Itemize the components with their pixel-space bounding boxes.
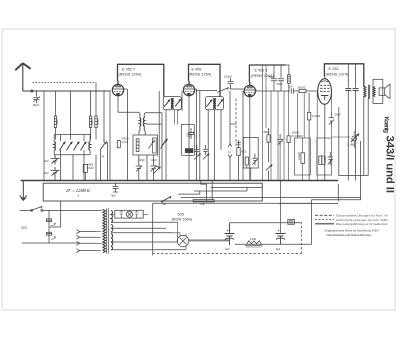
svg-text:40pF: 40pF	[139, 158, 145, 162]
loudspeaker	[373, 79, 383, 103]
band indicator dashed	[229, 91, 231, 181]
secondary tap wires	[111, 222, 186, 249]
mid column: capacitor pair	[186, 132, 196, 140]
output transformer	[364, 86, 366, 97]
resistor small top	[288, 219, 295, 224]
trimmer cap 4nF b	[51, 167, 60, 177]
fuse 2	[46, 232, 51, 235]
svg-text:8μF: 8μF	[276, 247, 281, 251]
node: antenna tap circle	[31, 90, 33, 92]
capacitor with switch b	[203, 145, 207, 155]
box demodulator	[182, 125, 195, 156]
wire corner right	[339, 99, 368, 176]
svg-text:gez.: gez.	[163, 203, 168, 206]
wire left verticals	[43, 91, 45, 181]
coil SW2	[89, 142, 90, 151]
trimmer osc a	[136, 162, 142, 172]
svg-text:M: M	[102, 155, 104, 159]
capacitor 100pF	[228, 78, 234, 89]
switch M	[101, 142, 107, 150]
svg-text:150Ω: 150Ω	[323, 157, 327, 163]
svg-text:U: U	[228, 150, 231, 154]
rectifier tube 505	[177, 235, 189, 247]
trimmer left	[153, 167, 160, 174]
dial lamp box	[115, 210, 143, 218]
svg-text:Rote Leitungsführung nur für b: Rote Leitungsführung nur für beide Ausf.	[336, 222, 388, 226]
resistor 50000	[299, 90, 306, 93]
wire osc verticals	[139, 155, 154, 181]
tube V3 E452T	[244, 85, 255, 96]
capacitor tone 50pF	[329, 112, 335, 126]
tube V1 E452T	[112, 84, 123, 95]
mains wire top	[20, 210, 101, 212]
coil L1	[54, 116, 56, 128]
wire anode loop V3	[249, 65, 285, 85]
mains wire bottom	[22, 242, 80, 244]
capacitor with switch a	[195, 145, 199, 155]
capacitor 1nF	[291, 88, 299, 93]
svg-text:+: +	[77, 193, 80, 198]
svg-text:2MΩ: 2MΩ	[264, 130, 270, 134]
wire fuse to lamp	[49, 201, 61, 227]
switch gez on harness	[162, 197, 171, 202]
tube V4 E433 output	[318, 79, 332, 105]
resistor 20000 dark	[185, 149, 193, 153]
resistor 5000 mid	[237, 148, 240, 156]
svg-text:Gestrichelte Leitungen für Aus: Gestrichelte Leitungen für Ausf. 343/II	[336, 218, 388, 222]
ground	[20, 181, 27, 201]
capacitor a	[345, 89, 351, 91]
svg-text:E 452 T: E 452 T	[122, 67, 136, 71]
capacitor mid	[277, 134, 283, 146]
svg-text:50pF: 50pF	[277, 82, 284, 86]
smoothing cap 1	[225, 223, 235, 245]
trimmer osc b	[150, 162, 156, 172]
wire b+ runs	[235, 200, 311, 244]
svg-text:0,1MΩ: 0,1MΩ	[347, 143, 355, 147]
capacitor 50pF b	[278, 65, 284, 91]
field coil resistor	[247, 241, 261, 244]
wire anode loop V2	[189, 64, 221, 96]
wire fuse column	[48, 211, 50, 244]
harness wires	[194, 187, 262, 191]
long verticals right	[263, 65, 267, 181]
svg-text:Fahnenbezeichnung für beide Au: Fahnenbezeichnung für beide Ausführungen	[327, 233, 373, 237]
coil L2	[89, 116, 91, 128]
svg-text:0,3MΩ: 0,3MΩ	[297, 152, 301, 160]
wire anode loop V1	[118, 64, 164, 96]
oscillator box	[133, 135, 158, 155]
resistor grid leak V4	[307, 112, 310, 120]
resistor 40000	[117, 141, 120, 148]
svg-text:80pF: 80pF	[33, 103, 40, 107]
wire verticals below bank	[55, 135, 108, 181]
box filter D	[243, 137, 258, 168]
svg-text:4nF: 4nF	[44, 171, 49, 175]
chassis box II	[153, 203, 312, 255]
resistor 2M	[267, 135, 270, 142]
svg-text:4μF: 4μF	[225, 247, 230, 251]
svg-text:5000: 5000	[241, 151, 247, 154]
svg-text:100pF: 100pF	[224, 75, 232, 79]
wire anode loop V4	[324, 64, 363, 87]
IF transformer 2	[205, 97, 223, 110]
box cathode 2	[317, 138, 332, 175]
tube V2 E455	[183, 84, 194, 95]
wire antenna to bus	[23, 90, 111, 92]
antenna	[15, 63, 30, 91]
svg-text:40pF: 40pF	[151, 158, 157, 162]
svg-text:50pF: 50pF	[269, 75, 276, 79]
svg-text:0,1MΩ: 0,1MΩ	[312, 114, 320, 118]
svg-text:250: 250	[201, 202, 206, 206]
trimmer cap 4nF a	[51, 155, 60, 165]
capacitor trimmer antenna	[34, 91, 40, 103]
svg-text:Koenig: Koenig	[383, 117, 390, 134]
secondary windings	[111, 211, 112, 223]
svg-text:Dickumrandete Leitungen für Au: Dickumrandete Leitungen für Ausf. I+II	[336, 214, 388, 218]
capacitor on 238.8	[237, 143, 241, 145]
svg-text:(0,04): (0,04)	[122, 140, 129, 144]
ZF box	[43, 183, 262, 201]
coil choke	[286, 65, 289, 75]
coil L3	[95, 116, 97, 128]
svg-text:7000: 7000	[96, 118, 100, 125]
svg-text:OHM: OHM	[88, 166, 94, 170]
svg-text:4nF: 4nF	[44, 159, 49, 163]
svg-text:1nF: 1nF	[288, 85, 293, 89]
legend line 2	[315, 219, 334, 221]
resistor tall left	[152, 138, 156, 153]
oscillator coupling transformer	[139, 112, 140, 117]
svg-text:E 455: E 455	[192, 67, 202, 71]
svg-text:(RGN 1064): (RGN 1064)	[172, 218, 193, 222]
wire hv	[230, 222, 302, 224]
svg-text:E 452 T: E 452 T	[255, 69, 269, 73]
svg-text:300: 300	[90, 119, 94, 124]
coil SW1	[54, 142, 55, 151]
tone potentiometer	[351, 134, 359, 142]
svg-text:ZF = 128kHz: ZF = 128kHz	[65, 188, 91, 193]
chassis bus	[21, 180, 338, 182]
svg-text:(RENS 1264): (RENS 1264)	[119, 73, 142, 77]
box cathode 1	[295, 138, 311, 175]
band switch bank left	[54, 134, 90, 136]
svg-text:220: 220	[21, 226, 27, 230]
wire V2 to V3 with switch	[196, 89, 243, 91]
smoothing cap 2	[276, 234, 286, 245]
fuse 1	[46, 219, 51, 222]
switch contacts S1..S4	[60, 142, 66, 150]
svg-text:4μF: 4μF	[111, 194, 116, 198]
wire right column power	[311, 141, 360, 200]
svg-text:300: 300	[55, 119, 59, 124]
wire V4 cathode down	[324, 104, 326, 180]
capacitor 50pF a	[271, 65, 277, 91]
legend line 3	[315, 223, 334, 225]
svg-text:(RENS 1374): (RENS 1374)	[326, 72, 349, 76]
svg-text:505: 505	[178, 212, 184, 216]
primary tap arrows	[76, 230, 96, 234]
resistor 5000	[83, 164, 87, 172]
svg-text:(0,04MΩ): (0,04MΩ)	[292, 134, 304, 138]
svg-text:50pF: 50pF	[335, 113, 342, 117]
mains switch	[31, 207, 42, 211]
wire dotted coupling	[33, 82, 97, 84]
svg-text:Eingeklammerte Werte für Ausfü: Eingeklammerte Werte für Ausführung 343/…	[325, 229, 379, 233]
resistor 20000b	[287, 136, 290, 143]
svg-text:(RENS 1254): (RENS 1254)	[189, 73, 212, 77]
svg-text:50000: 50000	[298, 85, 306, 89]
capacitor 4uF	[113, 183, 119, 192]
svg-text:E 433: E 433	[329, 67, 339, 71]
transformer core	[107, 209, 109, 254]
svg-text:343/I und II: 343/I und II	[384, 136, 396, 194]
IF transformer 1	[163, 97, 181, 110]
capacitor b	[353, 89, 359, 91]
svg-text:1300: 1300	[250, 237, 257, 241]
power transformer primary	[103, 210, 106, 253]
legend line 1	[315, 214, 334, 216]
wire detector line	[256, 90, 290, 92]
